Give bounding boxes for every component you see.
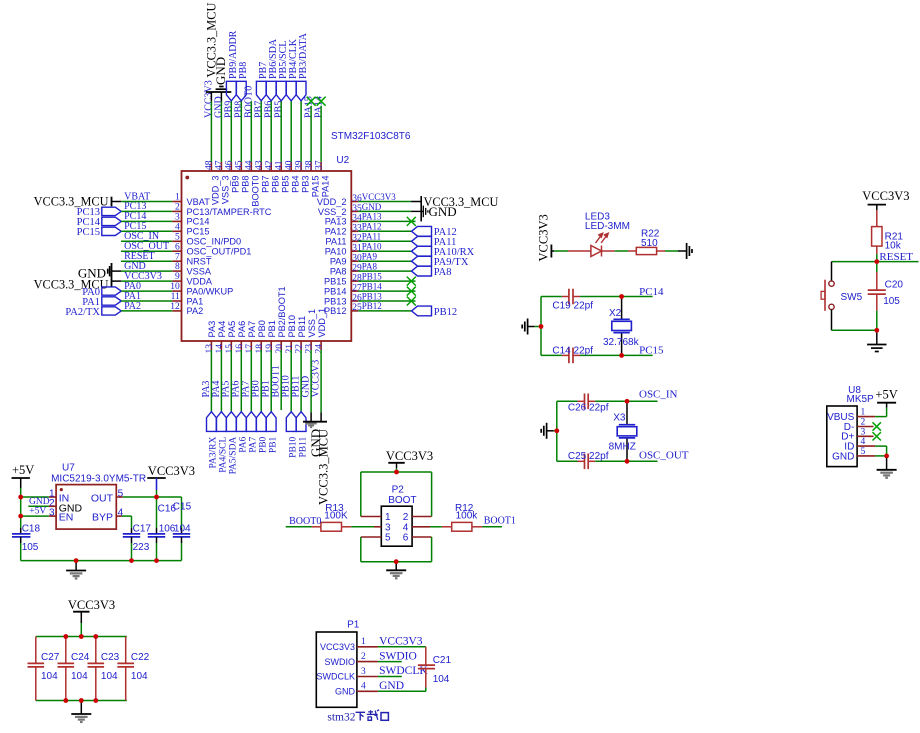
svg-text:47: 47 [215, 160, 225, 170]
svg-text:PB9: PB9 [231, 176, 241, 193]
svg-text:VSS_1: VSS_1 [307, 309, 317, 338]
svg-text:C18: C18 [22, 523, 41, 534]
svg-text:32: 32 [352, 234, 362, 244]
svg-text:36: 36 [352, 194, 362, 204]
svg-text:PB11: PB11 [298, 436, 308, 457]
svg-text:7: 7 [175, 252, 180, 262]
svg-text:C20: C20 [885, 279, 904, 290]
svg-text:OSC_IN: OSC_IN [639, 388, 678, 400]
svg-text:5: 5 [175, 232, 180, 242]
svg-text:104: 104 [101, 671, 118, 682]
svg-text:GND: GND [362, 202, 382, 212]
svg-text:PB5: PB5 [273, 101, 284, 118]
svg-text:14: 14 [215, 344, 225, 354]
svg-text:+5V: +5V [29, 507, 46, 517]
svg-text:+5V: +5V [875, 388, 897, 402]
svg-text:OSC_IN/PD0: OSC_IN/PD0 [187, 237, 242, 247]
svg-text:23: 23 [305, 344, 315, 354]
svg-text:PC14: PC14 [187, 217, 210, 227]
svg-text:6: 6 [175, 242, 180, 252]
svg-text:VCC3V3: VCC3V3 [386, 449, 433, 463]
svg-text:4: 4 [361, 682, 366, 692]
svg-text:29: 29 [352, 263, 362, 273]
svg-text:PA5/SDA: PA5/SDA [229, 437, 239, 475]
svg-text:MIC5219-3.0YM5-TR: MIC5219-3.0YM5-TR [51, 473, 146, 484]
svg-text:40: 40 [285, 160, 295, 170]
svg-text:C25 22pf: C25 22pf [568, 451, 609, 462]
svg-text:EN: EN [59, 511, 74, 523]
svg-text:VDD_2: VDD_2 [317, 197, 347, 207]
svg-text:PA9: PA9 [362, 252, 378, 262]
svg-text:PB0: PB0 [258, 436, 268, 453]
svg-text:VBAT: VBAT [187, 197, 211, 207]
svg-text:PB4: PB4 [291, 176, 301, 193]
svg-text:PA10: PA10 [325, 247, 347, 257]
svg-text:13: 13 [205, 344, 215, 354]
svg-text:C27: C27 [41, 652, 60, 663]
svg-text:PB15: PB15 [324, 276, 346, 286]
svg-text:LED-3MM: LED-3MM [585, 221, 630, 232]
svg-text:39: 39 [294, 160, 304, 170]
svg-text:PA13: PA13 [325, 217, 347, 227]
svg-text:28: 28 [352, 273, 362, 283]
svg-text:GND: GND [29, 497, 50, 507]
svg-text:24: 24 [315, 344, 325, 354]
svg-text:SWDCLK: SWDCLK [379, 665, 428, 677]
svg-text:VDDA: VDDA [187, 276, 213, 286]
svg-text:GND: GND [335, 687, 356, 697]
svg-text:GND: GND [429, 204, 457, 219]
svg-text:BOOT: BOOT [388, 495, 416, 506]
svg-text:PA2: PA2 [187, 306, 204, 316]
svg-text:VCC3.3_MCU: VCC3.3_MCU [317, 429, 331, 505]
svg-text:PB8: PB8 [238, 62, 249, 79]
svg-text:BOOT0: BOOT0 [289, 516, 321, 527]
svg-text:PB3: PB3 [300, 176, 310, 193]
svg-text:PA6: PA6 [237, 321, 247, 338]
svg-text:PA11: PA11 [325, 237, 346, 247]
svg-text:BOOT0: BOOT0 [251, 176, 261, 207]
svg-text:NRST: NRST [187, 257, 212, 267]
svg-text:100K: 100K [324, 510, 348, 521]
svg-text:33: 33 [352, 224, 362, 234]
svg-text:C21: C21 [433, 655, 452, 666]
svg-text:35: 35 [352, 204, 362, 214]
svg-text:VSS_2: VSS_2 [318, 207, 347, 217]
svg-text:PA12: PA12 [362, 222, 382, 232]
svg-text:1: 1 [361, 637, 366, 647]
svg-text:PC13/TAMPER-RTC: PC13/TAMPER-RTC [187, 207, 272, 217]
svg-text:PA14: PA14 [320, 176, 330, 198]
svg-text:104: 104 [131, 671, 148, 682]
svg-text:104: 104 [174, 523, 191, 534]
svg-text:PB14: PB14 [324, 286, 346, 296]
svg-text:OSC_OUT: OSC_OUT [639, 449, 689, 461]
svg-text:VSSA: VSSA [187, 266, 212, 276]
svg-text:PB6: PB6 [271, 176, 281, 193]
svg-text:5: 5 [385, 533, 391, 544]
svg-text:PA8: PA8 [434, 267, 452, 278]
svg-text:VCC3V3: VCC3V3 [537, 214, 551, 261]
svg-text:8: 8 [175, 262, 180, 272]
svg-text:VCC3V3: VCC3V3 [311, 360, 322, 398]
svg-text:PA0/WKUP: PA0/WKUP [187, 286, 234, 296]
svg-text:PA4: PA4 [217, 321, 227, 338]
svg-text:PA5: PA5 [227, 321, 237, 338]
svg-text:25: 25 [352, 303, 362, 313]
svg-text:PB1: PB1 [268, 436, 278, 453]
svg-text:SW5: SW5 [841, 292, 863, 303]
svg-text:PB5: PB5 [281, 176, 291, 193]
svg-text:VSS_3: VSS_3 [221, 176, 231, 205]
svg-text:42: 42 [265, 160, 275, 170]
svg-text:VDD_3: VDD_3 [211, 176, 221, 206]
svg-text:37: 37 [314, 160, 324, 170]
svg-text:PA10: PA10 [362, 242, 382, 252]
svg-text:VCC3V3: VCC3V3 [148, 464, 195, 478]
svg-text:223: 223 [133, 542, 150, 553]
svg-text:VCC3V3: VCC3V3 [68, 598, 115, 612]
svg-text:PA1: PA1 [187, 296, 204, 306]
svg-text:PA8: PA8 [362, 261, 378, 271]
svg-text:8MHZ: 8MHZ [609, 441, 636, 452]
svg-text:C23: C23 [101, 652, 120, 663]
svg-text:BYP: BYP [92, 511, 113, 523]
svg-text:PA13: PA13 [362, 212, 382, 222]
svg-text:41: 41 [275, 160, 285, 170]
svg-text:17: 17 [245, 344, 255, 354]
svg-text:VCC3V3: VCC3V3 [862, 189, 909, 203]
svg-text:PB12: PB12 [434, 307, 457, 318]
svg-text:X3: X3 [613, 413, 626, 424]
svg-text:STM32F103C8T6: STM32F103C8T6 [331, 131, 411, 142]
svg-text:PC15: PC15 [77, 227, 100, 238]
svg-text:100k: 100k [456, 510, 479, 521]
svg-text:PB15: PB15 [362, 271, 383, 281]
svg-text:C14 22pf: C14 22pf [552, 345, 593, 356]
svg-text:18: 18 [255, 344, 265, 354]
svg-text:GND: GND [379, 680, 404, 692]
svg-text:SWDIO: SWDIO [325, 657, 356, 667]
svg-text:P1: P1 [347, 619, 360, 630]
svg-text:PB10: PB10 [288, 436, 298, 457]
svg-text:4: 4 [175, 222, 180, 232]
svg-text:48: 48 [205, 160, 215, 170]
svg-text:PA2/TX: PA2/TX [65, 307, 100, 318]
svg-text:2: 2 [361, 652, 366, 662]
svg-text:34: 34 [352, 214, 362, 224]
svg-text:4: 4 [118, 508, 124, 519]
svg-text:105: 105 [883, 296, 900, 307]
svg-text:2: 2 [175, 203, 180, 213]
svg-text:PB11: PB11 [297, 316, 307, 338]
svg-text:GND: GND [832, 451, 854, 462]
svg-text:46: 46 [225, 160, 235, 170]
svg-text:PA3/RX: PA3/RX [209, 437, 219, 469]
svg-text:PA3: PA3 [207, 321, 217, 338]
svg-text:PA7: PA7 [249, 436, 259, 452]
svg-text:15: 15 [225, 344, 235, 354]
svg-text:43: 43 [255, 160, 265, 170]
svg-text:3: 3 [175, 213, 180, 223]
svg-text:PB10: PB10 [287, 315, 297, 337]
svg-text:VCC3V3: VCC3V3 [320, 642, 355, 652]
svg-text:PB13: PB13 [324, 296, 346, 306]
svg-text:PB2/BOOT1: PB2/BOOT1 [277, 286, 287, 337]
svg-text:44: 44 [245, 160, 255, 170]
svg-text:C15: C15 [173, 502, 192, 513]
svg-text:19: 19 [265, 344, 275, 354]
svg-text:PA6: PA6 [239, 436, 249, 452]
svg-text:21: 21 [285, 344, 295, 354]
svg-text:104: 104 [71, 671, 88, 682]
svg-text:PB14: PB14 [362, 281, 383, 291]
svg-text:U7: U7 [62, 462, 75, 473]
svg-text:510: 510 [641, 238, 658, 249]
svg-text:PB0: PB0 [257, 320, 267, 337]
svg-text:31: 31 [352, 244, 362, 254]
svg-text:PA7: PA7 [247, 321, 257, 338]
svg-text:105: 105 [22, 542, 39, 553]
svg-text:stm32: stm32 [327, 711, 355, 723]
svg-text:PB13: PB13 [362, 291, 383, 301]
svg-text:3: 3 [361, 667, 366, 677]
svg-text:VCC3V3: VCC3V3 [379, 636, 423, 648]
svg-text:45: 45 [235, 160, 245, 170]
svg-text:1: 1 [175, 193, 180, 203]
svg-text:20: 20 [275, 344, 285, 354]
svg-text:PA12: PA12 [325, 227, 347, 237]
svg-text:PA15: PA15 [310, 176, 320, 198]
svg-text:SWDCLK: SWDCLK [316, 672, 355, 682]
svg-text:OSC_OUT/PD1: OSC_OUT/PD1 [187, 247, 252, 257]
svg-text:X2: X2 [609, 308, 622, 319]
svg-text:MK5P: MK5P [847, 394, 875, 405]
svg-text:30: 30 [352, 254, 362, 264]
svg-text:PB1: PB1 [267, 320, 277, 337]
svg-text:PA8: PA8 [330, 266, 347, 276]
svg-text:U2: U2 [336, 155, 349, 166]
svg-text:VCC3V3: VCC3V3 [362, 192, 397, 202]
svg-text:22: 22 [295, 344, 305, 354]
svg-text:PB12: PB12 [324, 306, 346, 316]
svg-text:C24: C24 [71, 652, 90, 663]
svg-text:PA4/SCL: PA4/SCL [219, 437, 229, 473]
svg-text:PA11: PA11 [362, 232, 381, 242]
svg-text:16: 16 [235, 344, 245, 354]
svg-text:9: 9 [175, 272, 180, 282]
svg-text:26: 26 [352, 293, 362, 303]
svg-text:32.768k: 32.768k [603, 337, 640, 348]
svg-text:104: 104 [433, 674, 450, 685]
svg-text:C17: C17 [133, 523, 152, 534]
svg-text:C19 22pf: C19 22pf [552, 301, 593, 312]
svg-text:104: 104 [41, 671, 58, 682]
svg-text:SWDIO: SWDIO [379, 650, 417, 662]
svg-text:27: 27 [352, 283, 362, 293]
svg-text:PB3/DATA: PB3/DATA [298, 32, 309, 79]
svg-text:38: 38 [304, 160, 314, 170]
svg-text:PC14: PC14 [639, 286, 664, 298]
svg-text:6: 6 [403, 533, 409, 544]
svg-text:C26 22pf: C26 22pf [568, 403, 609, 414]
svg-text:PC15: PC15 [639, 345, 664, 357]
svg-text:VDD_1: VDD_1 [317, 308, 327, 338]
svg-text:3: 3 [49, 508, 55, 519]
svg-text:PB7: PB7 [261, 176, 271, 193]
svg-text:BOOT1: BOOT1 [484, 516, 516, 527]
svg-text:PA9: PA9 [330, 257, 347, 267]
svg-text:PB8: PB8 [241, 176, 251, 193]
svg-text:OUT: OUT [91, 493, 114, 505]
svg-text:PC15: PC15 [187, 227, 210, 237]
svg-text:PB12: PB12 [362, 301, 382, 311]
svg-text:C22: C22 [131, 652, 150, 663]
svg-text:+5V: +5V [12, 463, 34, 477]
